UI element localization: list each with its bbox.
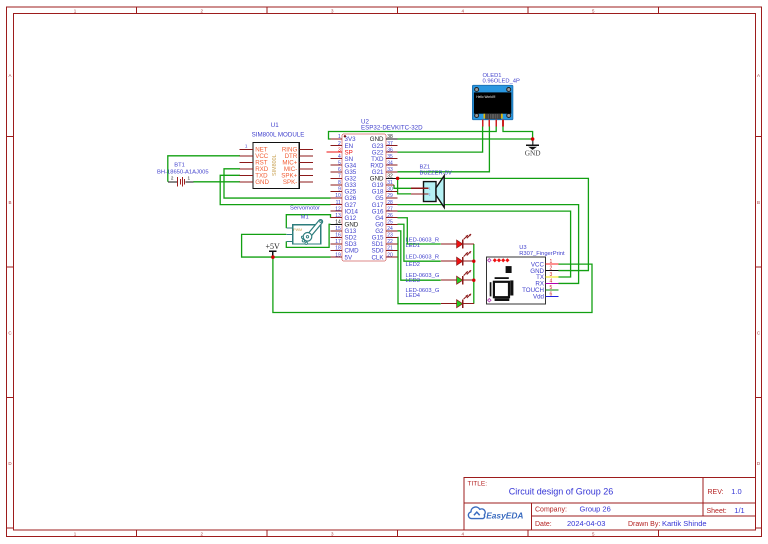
wire U2 GND pin14 to M1 pin3 [286,224,330,247]
wire U2 G15 to LED4 [398,237,441,303]
svg-text:C: C [757,330,761,335]
svg-text:32: 32 [387,174,393,180]
svg-text:3: 3 [338,147,341,153]
svg-text:3: 3 [331,532,334,537]
svg-text:37: 37 [387,141,393,147]
svg-text:B: B [757,200,760,205]
svg-text:4: 4 [462,8,465,13]
svg-text:36: 36 [387,147,393,153]
svg-text:BT1: BT1 [174,162,185,168]
svg-text:LED1: LED1 [406,243,421,249]
svg-text:5V: 5V [345,254,353,261]
svg-text:Company:: Company: [535,507,567,514]
wire U2 G16 to U3 TX [398,211,571,277]
wire U2 5V to M1 pin2 [242,234,331,257]
wire BT1 pin1 to U1 GND [193,181,240,183]
IC U1 SIM800L MODULE [239,122,313,188]
svg-text:Date:: Date: [535,521,552,528]
svg-text:PWM: PWM [293,228,302,232]
EasyEDA logo [468,507,523,521]
svg-text:7: 7 [338,174,341,180]
wire U2 G2 to LED3 [398,231,441,280]
svg-text:LED-0603_R: LED-0603_R [406,254,440,260]
svg-text:A: A [8,73,11,78]
svg-text:B: B [8,200,11,205]
svg-text:3: 3 [550,272,553,278]
svg-text:EasyEDA: EasyEDA [486,511,523,521]
svg-text:5: 5 [550,285,553,291]
svg-text:27: 27 [387,206,393,212]
svg-text:33: 33 [387,167,393,173]
svg-text:GND: GND [525,148,541,157]
svg-text:BH-18650-A1AJ005: BH-18650-A1AJ005 [157,169,209,175]
svg-text:2: 2 [338,141,341,147]
battery BT1 BH-18650-A1AJ005 [157,162,209,186]
svg-text:20: 20 [387,252,393,258]
svg-text:12: 12 [335,206,341,212]
svg-text:34: 34 [387,160,393,166]
svg-text:1: 1 [188,176,191,181]
svg-text:28: 28 [387,200,393,206]
svg-text:1: 1 [74,532,77,537]
svg-text:19: 19 [335,252,341,258]
svg-text:TITLE:: TITLE: [468,481,488,488]
svg-text:13: 13 [335,213,341,219]
svg-text:2024-04-03: 2024-04-03 [567,519,605,528]
wire U2 GND pin32 to U3 GND [398,178,589,270]
svg-text:2: 2 [171,176,174,181]
svg-text:1/1: 1/1 [734,506,744,515]
title block [464,478,756,531]
svg-text:9: 9 [338,187,341,193]
svg-text:LED3: LED3 [406,278,421,284]
svg-text:Group 26: Group 26 [580,505,611,514]
power flag +5V [266,242,281,259]
svg-text:4: 4 [462,532,465,537]
wire OLED1 pin2 to U2 G21 [398,126,490,172]
fingerprint module U3 R307_FingerPrint [486,245,565,304]
LED1 LED-0603_R [406,234,474,249]
svg-text:26: 26 [387,213,393,219]
svg-text:1: 1 [245,144,248,149]
svg-text:ESP32-DEVKITC-32D: ESP32-DEVKITC-32D [361,125,423,132]
svg-text:5: 5 [592,8,595,13]
wire U2 3V3 to OLED1 pin3 [329,126,497,139]
svg-text:REV:: REV: [708,489,724,496]
wire U1 TXD to U2 G27 [220,175,330,204]
svg-text:2: 2 [201,532,204,537]
svg-text:Vdd: Vdd [533,294,545,301]
ground GND net flag [525,137,541,157]
svg-text:17: 17 [335,239,341,245]
svg-text:Hello World!!!: Hello World!!! [476,95,495,99]
svg-text:35: 35 [387,154,393,160]
svg-text:SPK-: SPK- [283,179,297,186]
servo motor M1 Servomotor [286,205,321,244]
svg-text:+5V: +5V [266,242,281,251]
wire OLED1 pin4 to ground junction [503,126,533,142]
svg-text:38: 38 [387,134,393,140]
svg-text:1: 1 [550,259,553,265]
svg-text:Servomotor: Servomotor [290,205,320,211]
svg-text:1: 1 [74,8,77,13]
svg-text:Sheet:: Sheet: [707,508,727,515]
svg-text:18: 18 [335,246,341,252]
MCU U2 ESP32-DEVKITC-32D [327,118,424,261]
svg-text:Kartik Shinde: Kartik Shinde [662,519,707,528]
svg-text:GND: GND [255,179,269,186]
svg-text:LED2: LED2 [406,262,421,268]
svg-text:6: 6 [338,167,341,173]
LED2 LED-0603_R [406,251,474,268]
svg-text:C: C [8,330,12,335]
svg-text:10: 10 [335,193,341,199]
LED3 LED-0603_G [406,270,474,284]
svg-text:30: 30 [387,187,393,193]
wire LED cathode rail [473,244,475,304]
svg-text:3: 3 [331,8,334,13]
svg-text:LED4: LED4 [406,293,421,299]
svg-text:4: 4 [338,154,341,160]
junction dot LED3 cathode [472,279,475,282]
svg-text:2: 2 [550,266,553,272]
svg-text:5: 5 [338,160,341,166]
svg-text:16: 16 [335,233,341,239]
svg-text:1.0: 1.0 [731,487,741,496]
svg-text:6: 6 [550,291,553,297]
svg-text:21: 21 [387,246,393,252]
svg-text:0.96OLED_4P: 0.96OLED_4P [483,79,521,85]
svg-text:SIM800L: SIM800L [272,154,278,176]
svg-text:M1: M1 [301,214,309,220]
wire BT1 pin2 to U1 VCC [168,156,240,182]
svg-text:BUZZER-5V: BUZZER-5V [420,170,452,176]
wire U2 G4 to LED1 [398,218,441,244]
svg-text:A: A [757,73,760,78]
svg-text:22: 22 [387,239,393,245]
svg-text:8: 8 [338,180,341,186]
wire U2 G19 to BZ1 pin1 [394,185,411,188]
svg-text:Drawn By:: Drawn By: [628,521,660,528]
wire U2 G0 to LED2 [398,224,441,261]
svg-text:2: 2 [201,8,204,13]
wire U2 GND pin38 to ground junction [398,138,533,140]
svg-text:SIM800L MODULE: SIM800L MODULE [252,132,305,139]
svg-text:5: 5 [592,532,595,537]
junction dot LED2 cathode [472,260,475,263]
wire U2 G17 to U3 RX [398,205,579,284]
OLED1 0.96OLED_4P display module [472,73,520,126]
svg-text:15: 15 [335,226,341,232]
svg-text:D: D [757,461,761,466]
wire OLED1 pin1 to U2 G22 [398,126,483,152]
wire +5V rail to U3 VCC [273,257,592,312]
svg-text:14: 14 [335,219,341,225]
svg-text:CLK: CLK [371,254,384,261]
svg-text:U1: U1 [271,122,279,129]
svg-text:11: 11 [336,200,341,206]
junction dot U2 GND32 [396,177,399,180]
LED4 LED-0603_G [406,288,474,308]
wire U2 G12 to M1 pin1 [286,215,330,228]
svg-text:25: 25 [387,219,393,225]
svg-text:U3: U3 [519,245,526,251]
buzzer BZ1 BUZZER-5V [411,165,452,208]
svg-text:31: 31 [387,180,393,186]
svg-text:D: D [8,461,12,466]
svg-text:Circuit design of Group 26: Circuit design of Group 26 [509,487,614,497]
svg-text:R307_FingerPrint: R307_FingerPrint [519,251,565,257]
svg-text:29: 29 [387,193,393,199]
svg-text:1: 1 [338,134,341,140]
wire U2 GND pin32 to BZ1 pin2 [398,178,411,194]
svg-text:4: 4 [550,278,553,284]
wire U1 RXD to U2 G26 [224,169,331,198]
svg-text:24: 24 [387,226,393,232]
svg-text:23: 23 [387,233,393,239]
